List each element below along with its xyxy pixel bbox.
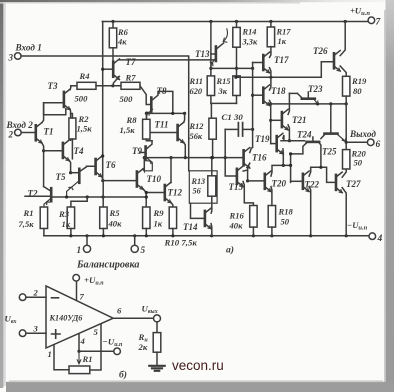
resistor R3 [67,207,74,229]
capacitor C1 [238,123,242,136]
transistor T24 [325,132,338,135]
junction on +U rail [344,20,347,23]
wire T20 base [248,180,264,182]
svg-text:4: 4 [377,234,383,244]
wire T15 collector [243,170,248,171]
svg-text:2к: 2к [138,342,148,352]
wire T12 emitter to R10 [171,202,173,207]
junction R14 R15 [235,67,238,70]
resistor R11 [207,76,214,96]
resistor R15 [233,76,240,96]
wire compensation node [144,157,243,159]
svg-text:Т14: Т14 [183,222,198,232]
junction R15 top tap [234,76,237,79]
junction on -U rail [270,234,273,237]
wire T20 emitter to R18 [270,187,273,206]
wire T23 to T21 [289,92,297,94]
wire T18 E to R19 bottom [271,103,347,105]
transistor T12 [165,182,171,203]
junction T11 C [183,112,186,115]
transistor T2 [50,188,53,201]
svg-text:56к: 56к [190,132,203,141]
svg-text:Т10: Т10 [147,174,162,184]
scan border left [0,0,3,388]
svg-text:1к: 1к [62,219,71,229]
junction T10 C [143,156,146,159]
wire T4 emitter [69,160,71,173]
svg-text:2: 2 [33,288,39,298]
junction on -U rail [309,234,312,237]
junction on +U rail [209,20,212,23]
junction R13 top [210,156,213,159]
junction on -U rail [252,234,255,237]
wire input2 to T1 [21,132,35,134]
junction bus R5 [101,195,104,198]
transistor T4 [63,140,69,161]
wire T19 collector [283,135,284,141]
resistor Rn load [153,333,161,353]
wire T1 collector to T3 base [42,103,63,123]
svg-text:R7: R7 [125,73,137,83]
svg-text:Т25: Т25 [322,147,337,157]
wire R18 bottom [271,227,273,236]
resistor R16 [250,206,257,228]
wire to -U terminal (b) [79,350,114,352]
wire T5 collector to T6 base [80,166,94,171]
wire T13 collector diag [217,43,224,48]
resistor R1 [40,207,47,229]
wire R17 to T17 [270,47,272,53]
svg-text:R3: R3 [58,209,70,219]
junction on -U rail [102,234,105,237]
potentiometer R1 (balance) [69,366,90,374]
terminal output (b) [154,315,161,322]
terminal 7 (+U supply) [368,17,375,24]
svg-text:1: 1 [48,349,52,359]
wire R2 top [71,114,73,119]
svg-text:Т12: Т12 [168,188,183,198]
svg-text:6: 6 [376,140,381,150]
junction R4 R7 T7 [111,84,114,87]
wire R3 top [71,197,87,207]
svg-text:56: 56 [193,187,202,196]
wire T3 to R4 [71,85,77,87]
wire T13 node to T17 base column [211,67,253,69]
wire T17 E to T26 base [236,62,334,78]
wire T13 emitter with arrow [210,59,215,68]
resistor R8 [143,119,150,139]
transistor T21 [282,109,288,130]
junction bus T5E [65,195,68,198]
wire node T8/T11 [146,112,184,114]
svg-text:Т1: Т1 [44,127,54,137]
svg-text:3: 3 [33,324,39,334]
wire load to ground [156,352,158,365]
terminal -U supply (b) [114,348,121,355]
wire R6 to T7 [112,48,114,62]
T24 emitter to output with arrow [337,134,346,142]
svg-text:620: 620 [190,87,203,96]
plus sign (non-inverting input) [52,330,61,338]
op-amp U1 K140UD6 triangle [46,286,113,348]
wire T12 base [146,192,164,194]
terminal 6 (output) [367,139,374,146]
svg-text:Т15: Т15 [229,182,244,192]
junction on -U rail [145,234,148,237]
wire rail to bias node [102,22,104,181]
wire to T21/T19 bases [270,104,272,144]
transistor T19 [277,133,283,154]
wire T3 collector to R4 [69,86,72,90]
enclosure box R13 [189,171,217,203]
wire T19 emitter column [282,155,284,166]
wire T7 collector to T13 base [119,59,213,61]
wire T2 base stub [25,195,51,197]
wire T20 collector [271,165,291,176]
junction on +U rail [269,20,272,23]
junction on -U rail [85,234,88,237]
resistor R12 [209,118,216,139]
wire T18 collector [270,77,271,90]
wire T6 emitter [102,177,103,181]
junction T25 E on bridge [319,166,322,169]
terminal op-amp pin 2 [19,294,26,301]
transistor T5 [78,169,81,183]
svg-text:С1 30: С1 30 [222,112,244,122]
wire T23 collector diag [297,93,302,98]
transistor T9 [144,147,147,161]
svg-text:50: 50 [281,217,290,227]
wire T18 base [253,94,263,96]
wire R16 bottom [252,227,254,236]
minus sign (inverting input) [52,297,59,299]
wire node to R13 [211,158,213,176]
svg-text:Т9: Т9 [132,146,142,156]
wire T25 collector [291,142,307,154]
junction T7 base [101,68,104,71]
wire R4 to R7 [96,85,121,87]
wire R8 bottom [146,139,152,141]
wire T17 emitter [270,68,271,78]
resistor R4 [77,82,96,89]
wire R12 bottom [212,139,214,157]
junction T24 base [329,102,332,105]
svg-text:Т24: Т24 [297,130,312,140]
wire to R12 [210,103,212,118]
junction on -U rail [210,234,213,237]
junction T20 C [289,164,292,167]
junction T12 C [169,156,172,159]
wire R15 bottom [236,96,238,104]
transistor T27 [336,172,342,193]
transistor T6 [96,156,102,177]
svg-text:Балансировка: Балансировка [76,260,139,271]
svg-text:Т6: Т6 [106,160,116,170]
wire T10 emitter to R9 [143,189,146,207]
wire T18 emitter [270,100,271,104]
wire T11 base [150,132,176,134]
svg-text:vecon.ru: vecon.ru [172,358,224,373]
wire to T5 [71,172,79,174]
wire to load [156,322,158,333]
wire T14 collector [210,208,213,213]
svg-text:6: 6 [117,306,122,316]
wire T3 emitter / T4 collector [69,109,72,140]
resistor R6 [109,28,116,48]
wire T21 collector [288,93,289,114]
transistor T23 [302,97,315,100]
transistor T26 [334,51,340,72]
wire T8 collector [153,91,173,113]
svg-text:Т13: Т13 [195,49,210,59]
svg-text:R9: R9 [153,208,165,218]
junction R12 node [211,156,214,159]
wire T25 emitter [319,142,321,167]
wire emitter bus [53,196,146,198]
wire resistor bottoms [44,229,173,236]
resistor R7 [121,82,140,89]
transistor T8 [150,98,153,112]
junction T4 E / T5 [69,171,72,174]
svg-text:R8: R8 [126,115,138,125]
wire to balance terminal 5 [134,236,136,245]
junction C1 [251,128,254,131]
resistor R19 [343,76,350,96]
svg-text:Вход 1: Вход 1 [15,43,42,53]
wire T24 base [330,104,332,133]
resistor R20 [343,150,350,169]
svg-text:Вход 2: Вход 2 [6,120,34,130]
resistor R10 [169,207,176,229]
wire +U supply rail [102,21,368,23]
junction T4 base tap [42,149,45,152]
junction on -U rail [133,234,136,237]
wire -U supply rail [44,235,369,237]
transistor T15 [237,166,243,187]
terminal 3 (input 1) [14,53,21,60]
wire rail to R11 [210,22,212,76]
wire T21 emitter [288,125,289,141]
wire T9 base stub [140,152,145,154]
svg-text:Т18: Т18 [271,86,286,96]
transistor T17 [263,52,269,73]
svg-text:R16: R16 [229,211,245,221]
wire T17 collector [270,52,271,57]
svg-text:а): а) [226,245,234,256]
transistor T3 [64,89,70,110]
resistor R13 [208,176,216,196]
junction T8 C [171,112,174,115]
wire T27 collector to R20 [342,169,346,177]
svg-text:1,5к: 1,5к [77,124,93,134]
potentiometer wiper arrow [77,351,81,364]
svg-text:R11: R11 [189,77,204,86]
transistor T20 [265,171,271,192]
wire non-inverting input [26,332,46,334]
wire pin 1 to R1 left [54,345,69,370]
wire T26 emitter to R19 [340,66,346,76]
svg-text:R14: R14 [242,28,257,37]
scan shadow right [386,0,394,392]
svg-text:40к: 40к [229,221,244,231]
wire T4 base [44,150,62,152]
junction R8 top [145,112,148,115]
svg-text:7,5к: 7,5к [19,219,35,229]
transistor T10 [137,169,143,190]
wire T22 base [291,180,303,182]
wire R13 to T14 [211,196,213,208]
svg-text:R13: R13 [191,177,206,186]
svg-text:1,5к: 1,5к [120,125,136,135]
svg-text:80: 80 [353,86,362,96]
svg-text:3,3к: 3,3к [242,38,258,47]
wire R2 bottom [71,139,73,159]
transistor T22 [303,171,309,192]
wire T1 emitter down [42,143,44,186]
svg-text:R12: R12 [189,122,204,131]
svg-text:Т3: Т3 [48,81,58,91]
wire rail to R6 [112,22,114,29]
junction pin4 node [77,350,80,353]
wire T2 collector [44,187,50,191]
svg-text:R17: R17 [276,28,292,37]
junction bias node [101,179,104,182]
junction bias column [251,67,254,70]
junction R19 bottom [345,102,348,105]
junction T19 E [282,164,285,167]
svg-text:Т26: Т26 [313,46,328,56]
wire T14 emitter to rail [210,224,213,236]
svg-text:Т16: Т16 [252,153,267,163]
junction output node [345,141,348,144]
svg-text:R5: R5 [109,208,121,218]
wire T26 collector to rail [340,22,345,56]
wire T23 base stub [307,92,309,98]
svg-text:Т23: Т23 [308,84,323,94]
svg-text:40к: 40к [108,219,123,229]
wire output drive node [281,140,305,142]
wire T6 collector [101,153,104,157]
wire R19 bottom to output [345,96,347,142]
svg-text:Т7: Т7 [126,57,136,67]
transistor T7 [113,59,119,80]
wire T15 emitter to R16 [243,182,253,206]
wire T10 base bias line [103,180,136,182]
wire to output terminal [346,141,367,143]
wire C1 right [243,128,252,130]
junction on -U rail [69,234,72,237]
scan shadow bottom [6,382,394,392]
svg-text:R18: R18 [278,207,294,217]
svg-text:4к: 4к [117,38,127,47]
wire T3 base-emitter loop [44,103,66,115]
svg-text:R19: R19 [351,76,367,86]
wire T7 base [103,68,113,70]
junction T21 base [269,119,272,122]
svg-text:Т5: Т5 [56,172,66,182]
svg-text:Т4: Т4 [74,146,84,156]
wire R11-R15 join [211,102,237,104]
svg-text:R1: R1 [82,354,93,364]
junction T25 node [289,152,292,155]
wire T16 collector [250,147,253,152]
junction T20 base node [246,179,249,182]
wire T22 C to T27 base [311,167,336,182]
terminal 5 (balance) [131,245,138,252]
transistor T25 [307,141,320,144]
transistor T13 [215,47,218,62]
svg-text:1к: 1к [154,219,163,229]
wire drive column [290,154,292,183]
junction T6 C [101,154,104,157]
wire T12 collector [170,158,172,183]
wire T2 emitter to R1 with arrow [44,199,50,207]
wire T13 base [211,53,215,55]
wire C1 left [225,128,237,130]
svg-text:R6: R6 [117,28,129,37]
wire T10 collector [143,158,144,171]
transistor T16 [244,148,250,169]
wire T21 base [271,119,281,121]
junction T11 E [184,156,187,159]
junction on -U rail [171,234,174,237]
junction T21 E [288,139,291,142]
wire T27 emitter to rail [342,188,346,236]
transistor T11 [178,122,184,143]
svg-text:7: 7 [80,292,85,302]
arrow mark [223,29,227,42]
terminal 2 (input 2) [15,129,22,136]
wire T14 base [191,203,205,218]
wire T9 collector up [147,141,152,149]
svg-text:1: 1 [77,245,82,255]
wire T24 collector diag [321,134,325,139]
wire pin 7 supply [76,281,78,300]
wire to R8 [145,113,147,119]
junction T10 E / T12 base [145,191,148,194]
wire inverting input [26,296,46,298]
wire T25 base stub [312,137,314,141]
wire rail to R14 [236,22,238,28]
wire input1 to R13 box [21,56,189,171]
svg-text:50: 50 [354,158,363,168]
wire T5 emitter to bus with arrow [67,181,80,197]
junction on +U rail [235,20,238,23]
wire output to R20 [345,142,347,149]
wire T11 emitter [184,142,186,157]
wire pin 5 to R1 right [90,324,101,370]
junction T18 base [251,94,254,97]
resistor R14 [233,27,240,47]
wire to balance terminal 1 [86,236,88,245]
svg-text:4: 4 [80,336,86,346]
wire rail to R17 [270,22,272,28]
svg-text:500: 500 [120,94,134,104]
wire C1 to T15 base [225,129,236,176]
svg-text:5: 5 [141,245,146,255]
wire R7 to T8 base [140,86,151,105]
scan border top [0,0,394,2]
T23 emitter with arrow [314,99,318,103]
svg-text:5: 5 [94,327,99,337]
svg-text:R4: R4 [79,71,91,81]
wire T17/T18 base column [252,63,254,148]
resistor R2 [69,118,76,139]
wire T22 emitter to rail [309,187,311,236]
svg-text:Т27: Т27 [346,179,361,189]
junction bus R3 [86,195,89,198]
wire T7 emitter down [113,76,119,85]
